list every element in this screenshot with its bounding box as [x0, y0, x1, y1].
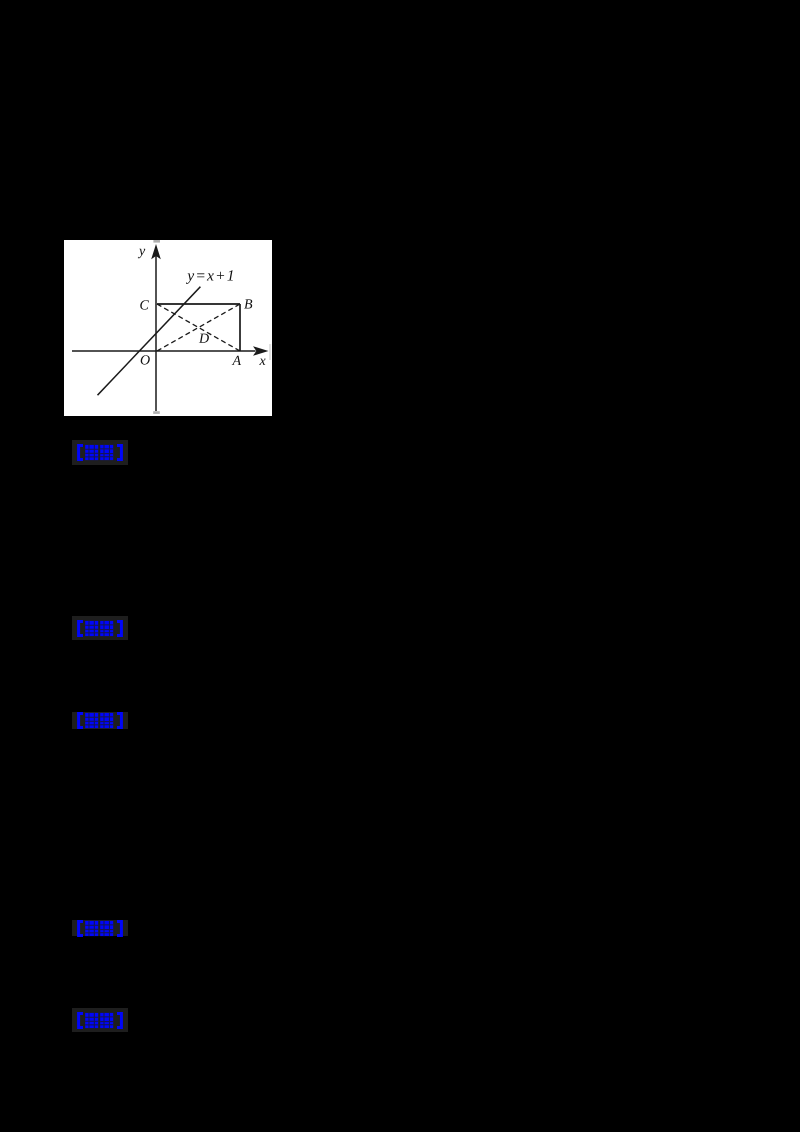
label B: [244, 299, 252, 308]
x-axis arrowhead: [253, 346, 269, 356]
label O: [141, 355, 150, 364]
y-axis arrowhead: [151, 244, 161, 259]
rectangle edge BA (right): [239, 304, 241, 351]
gray notch bottom of y-axis: [153, 411, 160, 414]
x-axis: [72, 350, 256, 352]
label x: [259, 359, 265, 365]
rectangle edge CB (top): [157, 303, 240, 305]
y-axis: [155, 256, 157, 411]
label y: [138, 249, 145, 258]
answer tag 3: [72, 712, 128, 729]
line y=x+1: [98, 287, 201, 396]
label D: [199, 334, 209, 343]
gray notch top of y-axis: [153, 240, 160, 243]
dashed diagonal CA: [157, 304, 240, 351]
answer tag 4: [72, 920, 128, 936]
answer tag 1 (blue bracketed CJK label on gray highlight): [72, 440, 128, 465]
label y=x+1: [186, 270, 233, 284]
dashed diagonal OB: [157, 304, 240, 351]
answer tag 2: [72, 616, 128, 640]
faint gray sliver at box right edge: [269, 344, 271, 360]
label A: [232, 356, 241, 365]
answer tag 5: [72, 1008, 128, 1032]
figure: coordinate plane with line y=x+1 and rectangle OABC: [64, 240, 272, 416]
label C: [140, 300, 149, 309]
